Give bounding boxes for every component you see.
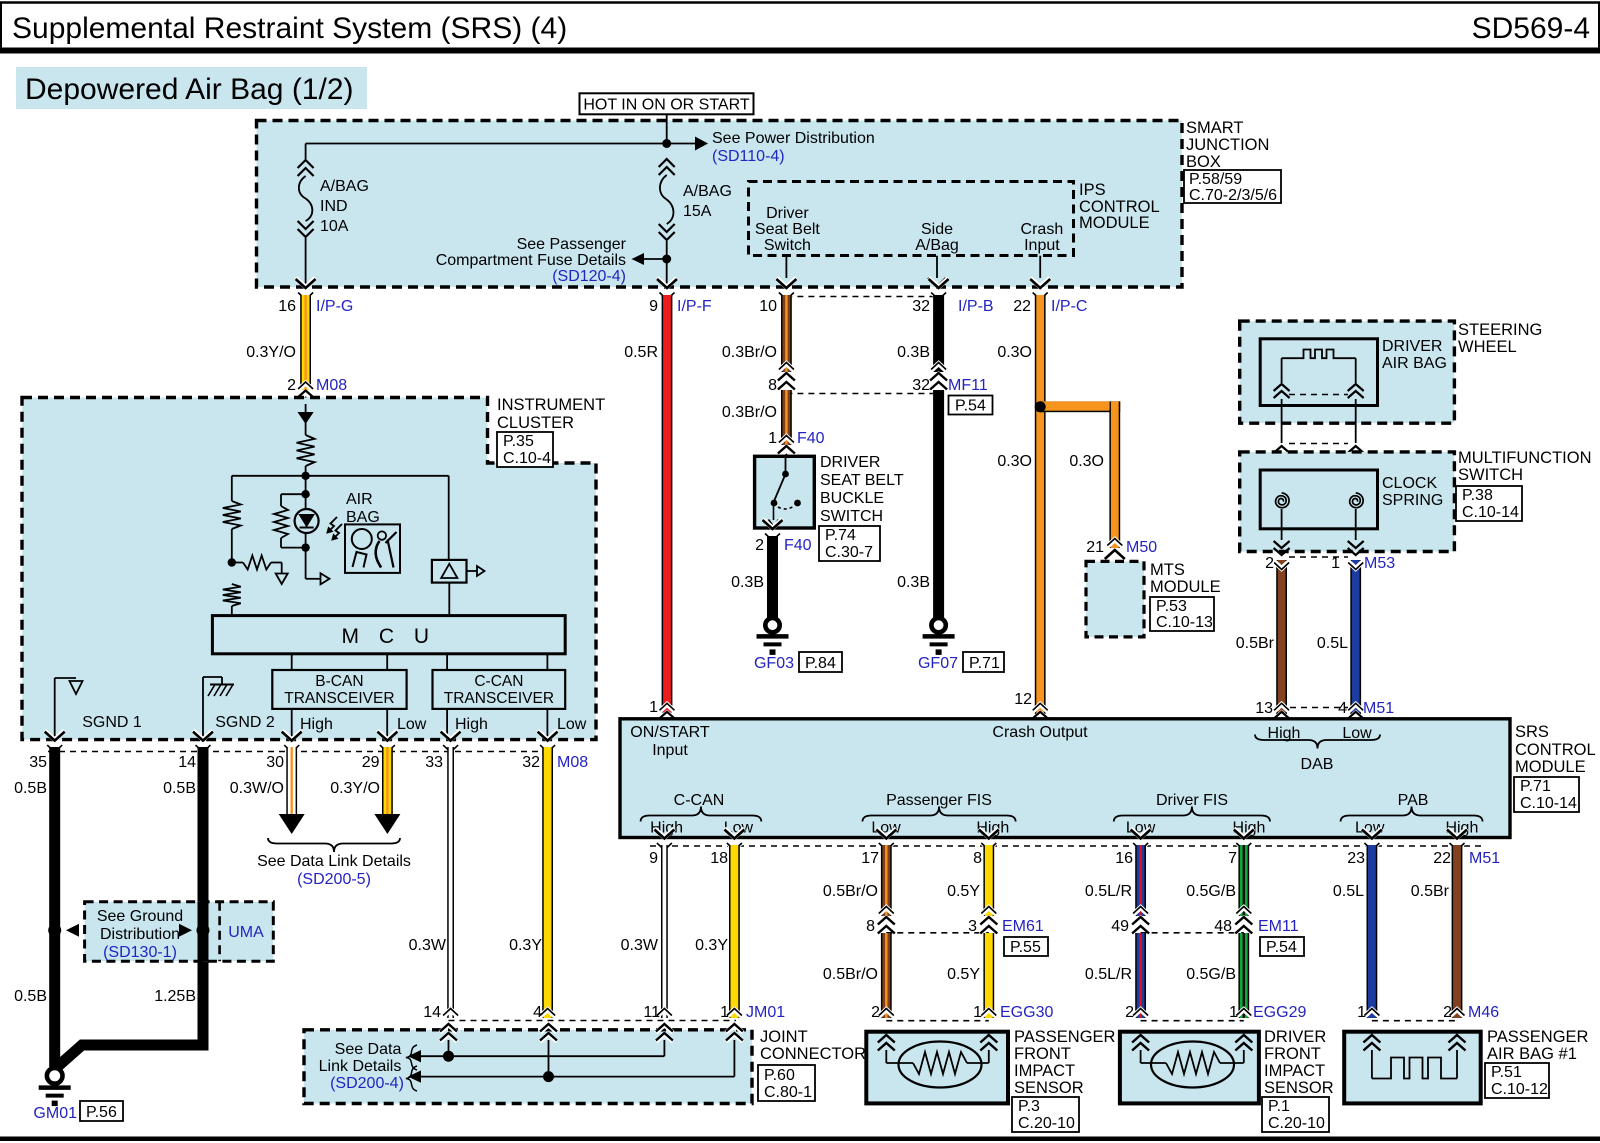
svg-text:1: 1 [1331,555,1340,572]
wire 1.25B SGND2 to ground GM01 [56,731,213,1068]
GF03 reference box P.84 [799,652,842,672]
svg-text:B-CAN: B-CAN [315,673,363,690]
HOT IN ON OR START label [580,93,754,114]
svg-text:P.84: P.84 [805,655,836,672]
svg-text:C-CAN: C-CAN [674,792,725,809]
svg-text:SD569-4: SD569-4 [1472,12,1590,45]
svg-text:0.5Br/O: 0.5Br/O [823,883,878,900]
wire 0.5L/R SRS pin16 to EM11 pin49 [1085,829,1151,936]
svg-text:Supplemental Restraint System: Supplemental Restraint System (SRS) (4) [12,12,567,45]
fuse A/BAG 15A [659,158,732,287]
IPS output arrow side a/bag [928,256,946,287]
svg-text:MODULE: MODULE [1515,758,1586,776]
svg-text:32: 32 [522,754,540,771]
svg-text:8: 8 [866,918,875,935]
svg-text:1: 1 [1229,1004,1238,1021]
ground GF07 [918,618,958,672]
svg-text:TRANSCEIVER: TRANSCEIVER [444,690,554,707]
svg-text:FRONT: FRONT [1014,1045,1071,1063]
svg-text:4: 4 [1338,700,1347,717]
svg-text:MTS: MTS [1150,561,1185,579]
svg-text:AIR: AIR [346,491,373,508]
JM01 pin14 entry chevrons [440,1024,457,1056]
svg-text:15A: 15A [683,203,712,220]
svg-text:High: High [300,716,333,733]
svg-text:4: 4 [533,1004,542,1021]
svg-text:GM01: GM01 [33,1105,77,1122]
svg-text:Switch: Switch [764,237,811,254]
svg-text:C.20-10: C.20-10 [1268,1115,1325,1132]
svg-text:1.25B: 1.25B [154,988,196,1005]
wire from HOT label to bus [666,114,668,143]
C-CAN outputs [447,709,587,740]
driver front impact sensor box [1120,1028,1334,1103]
svg-text:7: 7 [1228,850,1237,867]
svg-text:0.3W/O: 0.3W/O [230,780,284,797]
wire 0.3Br/O from SJB pin10 to MF11 pin8 [722,278,797,394]
GF07 reference box P.71 [963,652,1004,672]
svg-text:10: 10 [759,298,777,315]
svg-text:MF11: MF11 [948,377,988,394]
passenger air bag reference box P.51 C.10-12 [1485,1063,1549,1098]
steering to clock spring dashed link [1289,443,1348,445]
svg-text:0.5B: 0.5B [14,780,47,797]
svg-text:SRS: SRS [1515,723,1549,741]
DAB connector dashed link [1289,394,1348,396]
wire 0.3B from MF11 pin32 to ground GF07 [897,390,944,618]
svg-text:Depowered Air Bag (1/2): Depowered Air Bag (1/2) [25,73,354,106]
svg-text:18: 18 [710,850,728,867]
passenger air bag squib element [1363,1035,1465,1079]
connector M51 top dashed link [1290,707,1348,709]
svg-text:0.3Br/O: 0.3Br/O [722,404,777,421]
svg-text:0.3W: 0.3W [409,937,447,954]
svg-text:C.10-14: C.10-14 [1462,504,1519,521]
svg-text:See Ground: See Ground [97,908,183,925]
svg-text:JUNCTION: JUNCTION [1186,136,1269,154]
svg-text:Compartment Fuse Details: Compartment Fuse Details [436,252,626,269]
wire DAB to clock spring right [1348,399,1364,493]
svg-text:0.3W: 0.3W [621,937,659,954]
clock spring [1260,470,1443,555]
svg-text:0.5L: 0.5L [1317,635,1348,652]
svg-text:EGG30: EGG30 [1000,1004,1053,1021]
svg-text:BOX: BOX [1186,153,1221,171]
svg-text:I/P-C: I/P-C [1051,298,1087,315]
JM01 pin1 entry chevrons [726,1024,743,1077]
svg-text:FRONT: FRONT [1264,1045,1321,1063]
EM61 reference box P.55 [1004,937,1048,956]
svg-text:M51: M51 [1469,850,1500,867]
fuse A/BAG IND 10A [298,159,369,287]
svg-text:Low: Low [397,716,427,733]
svg-text:(SD130-1): (SD130-1) [103,944,177,961]
node D [301,543,309,551]
svg-text:12: 12 [1014,691,1032,708]
svg-text:10A: 10A [320,218,349,235]
wire 0.3Y cluster C-CAN Low to JM01 pin4 [509,731,558,1018]
svg-text:CLUSTER: CLUSTER [497,414,574,432]
svg-text:M51: M51 [1363,700,1394,717]
svg-text:1: 1 [1357,1004,1366,1021]
svg-text:0.3O: 0.3O [1069,453,1104,470]
svg-text:UMA: UMA [228,924,264,941]
svg-text:SWITCH: SWITCH [820,508,883,525]
svg-text:P.58/59: P.58/59 [1189,171,1242,188]
wire 0.3Y SRS C-CAN Low to JM01 pin1 [695,829,744,1019]
airbag warning LED [295,509,319,548]
SRS bottom connector dashed link [649,846,1500,867]
svg-text:P.54: P.54 [955,398,986,415]
MTS reference box P.53 C.10-13 [1150,597,1214,631]
svg-text:SGND 1: SGND 1 [82,714,142,731]
wire 0.5G/B SRS pin7 to EM11 pin48 [1186,829,1254,935]
svg-text:EM11: EM11 [1258,918,1299,935]
svg-text:I/P-F: I/P-F [677,298,712,315]
wire 0.3W/O B-CAN High to data link [230,731,305,834]
connector EGG30 dashed link [871,1004,1053,1021]
svg-text:Passenger FIS: Passenger FIS [886,792,992,809]
svg-text:TRANSCEIVER: TRANSCEIVER [284,690,394,707]
DAB squib element [1274,350,1364,399]
svg-text:DRIVER: DRIVER [820,454,880,471]
svg-text:22: 22 [1433,850,1451,867]
svg-text:SWITCH: SWITCH [1458,466,1523,484]
svg-text:0.5Br/O: 0.5Br/O [823,966,878,983]
svg-text:CONNECTOR: CONNECTOR [760,1045,866,1063]
resistor R3 horizontal to ground arrow [232,556,288,585]
GM01 reference box P.56 [80,1101,123,1121]
svg-text:Link Details: Link Details [319,1058,402,1075]
SGND 1 symbol [55,678,142,740]
svg-text:EGG29: EGG29 [1253,1004,1306,1021]
see ground distribution UMA box [85,902,274,961]
multifunction switch box [1240,449,1592,552]
ground GM01 [33,1068,77,1122]
connector MF11 dashed link [786,377,987,394]
driver seat belt buckle switch [755,454,904,528]
svg-text:P.60: P.60 [764,1067,795,1084]
svg-text:A/BAG: A/BAG [320,178,369,195]
svg-text:8: 8 [973,850,982,867]
node A [301,472,309,480]
svg-text:A/BAG: A/BAG [683,183,732,200]
connector M08 cluster dashed link [29,752,588,772]
airbag lamp diode [298,404,314,435]
svg-text:DRIVER: DRIVER [1382,338,1442,355]
svg-text:HOT IN ON OR START: HOT IN ON OR START [583,97,749,114]
svg-text:14: 14 [423,1004,441,1021]
svg-text:See Power Distribution: See Power Distribution [712,130,875,147]
svg-text:Crash: Crash [1021,221,1064,238]
svg-text:PAB: PAB [1398,792,1429,809]
node junction at bus [662,139,671,148]
svg-text:Input: Input [652,742,688,759]
svg-text:0.3Y/O: 0.3Y/O [246,344,296,361]
svg-text:P.71: P.71 [1520,778,1551,795]
C-CAN transceiver block [433,654,566,709]
svg-text:P.1: P.1 [1268,1098,1290,1115]
svg-text:A/Bag: A/Bag [915,237,959,254]
svg-text:C.70-2/3/5/6: C.70-2/3/5/6 [1189,187,1277,204]
svg-text:IMPACT: IMPACT [1014,1062,1075,1080]
svg-text:32: 32 [912,377,930,394]
svg-text:0.3B: 0.3B [897,574,930,591]
svg-text:C.10-14: C.10-14 [1520,795,1577,812]
diagram title Depowered Air Bag (1/2) [16,67,367,109]
svg-text:SMART: SMART [1186,119,1243,137]
svg-text:0.3Y: 0.3Y [509,937,542,954]
svg-text:(SD110-4): (SD110-4) [712,148,785,165]
svg-text:P.54: P.54 [1266,939,1297,956]
svg-text:29: 29 [362,754,380,771]
resistor R1 lamp series [297,435,315,476]
joint connector box [304,1028,866,1104]
svg-text:0.5Br: 0.5Br [1411,883,1450,900]
wire 0.5L clock spring pin1 to SRS pin4 [1317,560,1394,729]
svg-text:MODULE: MODULE [1079,214,1150,232]
svg-text:2: 2 [1443,1004,1452,1021]
svg-text:P.56: P.56 [86,1104,117,1121]
svg-text:0.5Y: 0.5Y [947,883,980,900]
wire 0.3B from SJB pin32 to MF11 pin32 [897,278,993,394]
wire 0.5Br clock spring pin2 to SRS pin13 [1236,560,1292,729]
svg-text:1: 1 [720,1004,729,1021]
passenger front impact sensor box [866,1028,1115,1103]
svg-text:WHEEL: WHEEL [1458,338,1517,356]
svg-text:JM01: JM01 [746,1004,785,1021]
svg-text:Low: Low [557,716,587,733]
svg-text:21: 21 [1086,539,1104,556]
svg-text:1: 1 [973,1004,982,1021]
svg-text:CONTROL: CONTROL [1515,741,1596,759]
page footer bar [0,1137,1600,1142]
UMA junction dot left [48,924,79,937]
MF11 reference box P.54 [949,396,993,415]
wire 0.5L/R EM11 to EGG29 pin2 [1085,933,1148,1018]
connector JM01 dashed link [423,1004,785,1021]
driver sensor reference box P.1 C.20-10 [1262,1097,1329,1132]
svg-text:C.20-10: C.20-10 [1018,1115,1075,1132]
svg-text:M08: M08 [557,754,588,771]
svg-text:P.3: P.3 [1018,1098,1040,1115]
resistor R5 LED parallel [274,494,306,547]
connector EM11 dashed link [1141,918,1299,935]
svg-text:Seat Belt: Seat Belt [755,221,820,238]
smart junction box SJB [257,119,1270,287]
svg-text:M53: M53 [1364,555,1395,572]
connector M46 dashed link [1357,1004,1499,1021]
svg-text:1: 1 [768,430,777,447]
SRS control module box [620,719,1596,838]
node junction at fuse output [662,255,671,264]
passenger air bag #1 box [1344,1028,1588,1103]
connector EGG29 dashed link [1125,1004,1306,1021]
svg-text:MODULE: MODULE [1150,578,1221,596]
wire 0.5Br/O EM61 to EGG30 pin2 [823,933,894,1018]
svg-text:GF03: GF03 [754,655,794,672]
svg-text:P.38: P.38 [1462,487,1493,504]
MTS module [1086,561,1221,637]
page header frame [0,3,1600,54]
svg-text:16: 16 [278,298,296,315]
see passenger compartment fuse details arrow [436,236,667,285]
svg-text:INSTRUMENT: INSTRUMENT [497,396,605,414]
svg-text:STEERING: STEERING [1458,321,1542,339]
svg-text:32: 32 [912,298,930,315]
connector EM61 dashed link [886,918,1044,935]
svg-text:17: 17 [861,850,879,867]
node junction on 0.3O wire [1035,401,1046,412]
svg-text:1: 1 [649,699,658,716]
SJB reference box P.58/59 C.70-2/3/5/6 [1184,170,1281,204]
SGND 2 symbol [203,677,275,740]
wire 0.5Br SRS pin22 to M46 pin2 [1411,829,1467,1019]
connector I/P-B dashed link pin10 to pin32 [786,296,938,298]
svg-text:C.80-1: C.80-1 [764,1084,812,1101]
svg-text:0.3O: 0.3O [997,344,1032,361]
svg-text:Crash Output: Crash Output [992,724,1088,741]
svg-text:8: 8 [768,377,777,394]
JM01 pin11 entry chevrons [656,1024,673,1056]
svg-text:See Data: See Data [335,1041,402,1058]
passenger front impact sensor element [878,1035,998,1088]
svg-text:33: 33 [425,754,443,771]
svg-text:(SD200-4): (SD200-4) [330,1075,404,1092]
svg-text:DRIVER: DRIVER [1264,1028,1326,1046]
svg-text:AIR BAG #1: AIR BAG #1 [1487,1045,1577,1063]
svg-text:I/P-G: I/P-G [316,298,353,315]
passenger sensor reference box P.3 C.20-10 [1012,1097,1079,1132]
svg-text:C-CAN: C-CAN [474,673,523,690]
wire 0.3Br/O from MF11 pin8 to switch pin1 F40 [722,390,825,464]
node C [301,476,309,509]
LED emission arrows [326,517,342,541]
UMA junction dot right [179,924,210,937]
switch reference box P.74 C.30-7 [819,526,880,561]
svg-text:C.30-7: C.30-7 [825,544,873,561]
svg-text:0.5G/B: 0.5G/B [1186,883,1236,900]
svg-text:JOINT: JOINT [760,1028,808,1046]
wire 0.5L SRS pin23 to M46 pin1 [1333,829,1382,1019]
svg-text:14: 14 [178,754,196,771]
svg-text:2: 2 [871,1004,880,1021]
svg-text:2: 2 [1125,1004,1134,1021]
svg-text:30: 30 [266,754,284,771]
connector M53 dashed link [1265,555,1395,572]
IPS output arrow crash input [1031,256,1049,287]
svg-text:CLOCK: CLOCK [1382,475,1437,492]
svg-text:F40: F40 [784,537,812,554]
wire 0.3O from SJB pin22 to SRS pin12 [997,278,1087,729]
svg-text:IND: IND [320,198,348,215]
see data link details SD200-4 [319,1041,417,1092]
svg-text:M08: M08 [316,377,347,394]
svg-text:P.35: P.35 [503,433,534,450]
svg-text:DAB: DAB [1301,756,1334,773]
wire 0.3W SRS C-CAN High to JM01 pin11 [621,829,675,1019]
svg-text:0.5B: 0.5B [163,780,196,797]
svg-text:Driver: Driver [766,205,809,222]
joint connector C-CAN Low bus [408,1070,734,1082]
JM01 pin4 entry chevrons [540,1024,557,1077]
wire 0.3Y/O from SJB pin16 to cluster pin2 M08 [246,278,353,408]
LED cathode arrow out [306,548,330,585]
svg-text:0.3B: 0.3B [897,344,930,361]
wire 0.3B from switch pin2 F40 to ground GF03 [731,519,812,618]
multifunction reference box P.38 C.10-14 [1456,486,1522,521]
svg-text:49: 49 [1111,918,1129,935]
svg-text:0.5Br: 0.5Br [1236,635,1275,652]
SRS reference box P.71 C.10-14 [1514,777,1579,812]
svg-text:C.10-4: C.10-4 [503,450,551,467]
svg-text:Low: Low [871,820,901,837]
wire 0.5Br/O SRS pin17 to EM61 pin8 [823,829,896,936]
svg-text:ON/START: ON/START [630,724,710,741]
svg-text:9: 9 [649,298,658,315]
wire 0.3Y/O B-CAN Low to data link [330,731,400,834]
node B [228,558,236,566]
buzzer driver box [432,476,485,616]
svg-text:13: 13 [1255,700,1273,717]
svg-text:EM61: EM61 [1002,918,1044,935]
svg-text:See Data Link Details: See Data Link Details [257,853,411,870]
svg-text:M50: M50 [1126,539,1157,556]
svg-text:P.71: P.71 [969,655,1000,672]
wire 0.5G/B EM11 to EGG29 pin1 [1186,933,1251,1018]
driver front impact sensor element [1132,1035,1252,1088]
wire 0.5Y EM61 to EGG30 pin1 [947,933,996,1018]
svg-text:0.3B: 0.3B [731,574,764,591]
svg-text:Side: Side [921,221,953,238]
svg-text:(SD120-4): (SD120-4) [552,268,626,285]
IPS output arrow driver seat belt switch [777,256,795,287]
svg-text:IPS: IPS [1079,181,1106,199]
svg-text:0.5Y: 0.5Y [947,966,980,983]
svg-text:P.74: P.74 [825,527,856,544]
wire 0.3W cluster C-CAN High to JM01 pin14 [409,731,461,1018]
IPS control module [749,181,1160,256]
wire 0.5R from SJB pin9 to SRS pin1 [624,278,712,729]
svg-text:P.53: P.53 [1156,598,1187,615]
svg-text:16: 16 [1115,850,1133,867]
svg-text:M C U: M C U [342,625,437,648]
svg-text:C.10-13: C.10-13 [1156,614,1213,631]
B-CAN outputs [292,709,427,740]
svg-text:0.3Y: 0.3Y [695,937,728,954]
svg-text:0.5G/B: 0.5G/B [1186,966,1236,983]
see power distribution arrow [667,130,875,165]
svg-text:Input: Input [1024,237,1060,254]
wire 0.5B SGND1 to ground GM01 [14,731,65,1068]
svg-text:AIR BAG: AIR BAG [1382,355,1447,372]
wire 0.5Y SRS pin8 to EM61 pin3 [947,829,999,935]
joint connector C-CAN High bus [408,1050,664,1062]
wire 0.3O branch to MTS module pin21 M50 [1040,401,1157,560]
svg-text:PASSENGER: PASSENGER [1487,1028,1589,1046]
svg-text:0.5L/R: 0.5L/R [1085,966,1132,983]
svg-text:9: 9 [649,850,658,867]
svg-text:23: 23 [1347,850,1365,867]
svg-text:3: 3 [968,918,977,935]
svg-text:C.10-12: C.10-12 [1491,1081,1548,1098]
svg-text:F40: F40 [797,430,825,447]
svg-text:SEAT BELT: SEAT BELT [820,472,904,489]
MCU block [212,616,565,654]
svg-text:0.5L: 0.5L [1333,883,1364,900]
svg-text:2: 2 [755,537,764,554]
svg-text:P.51: P.51 [1491,1064,1522,1081]
